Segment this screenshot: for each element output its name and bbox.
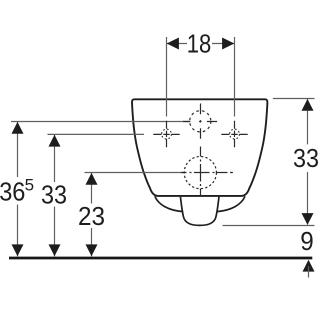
drain hole centerline vertical [200,147,202,196]
extension line flush inlet (36.5) [11,121,190,123]
water inlet hole circle [190,111,211,132]
trap U outline [180,197,219,226]
svg-text:36: 36 [0,176,25,206]
dimension 36.5 arrow up [12,122,24,134]
dimension 33 left line lower [54,207,56,257]
dimension 18 line left segment [167,43,188,45]
fixing hole right centerline horizontal [221,133,247,135]
dimension 18 arrow left [167,38,179,50]
dimension 36.5 line lower [17,205,19,257]
dimension 18 arrow right [222,38,234,50]
drain hole circle [184,157,216,189]
WC body outline [132,99,267,196]
dimension 33 left arrow down [49,244,61,256]
fixing hole right centerline vertical [234,121,236,148]
svg-text:9: 9 [300,226,314,256]
fixing hole left circle [162,129,172,139]
dimension 9 arrow up below baseline [303,260,315,272]
dimension 33 right arrow down [302,213,314,225]
dimension 23 line upper [91,173,93,204]
dimension 18 extension line left [166,37,168,117]
dimension 18 extension line right [234,37,236,117]
fixing hole left centerline horizontal [153,133,179,135]
dimension 23 line lower [91,228,93,256]
dimension 23 arrow up [86,173,98,185]
dimension 36.5 arrow down [12,244,24,256]
dimension 33 right line lower [307,172,309,225]
extension line top right (33 right) [273,98,315,100]
dimension 33 right line upper [307,99,309,145]
dimension 33 left line upper [54,134,56,182]
svg-text:5: 5 [25,175,34,194]
water inlet hole centerline horizontal [183,121,217,123]
dimension 18 line right segment [212,43,235,45]
extension line drain (23) [85,172,184,174]
dimension 33 left arrow up [49,135,61,147]
extension line fixing holes (33 left) [48,133,145,135]
dimension 23 arrow down [86,244,98,256]
water inlet hole center dot [199,120,201,122]
extension line trap bottom (9) [223,225,315,227]
svg-text:23: 23 [78,201,105,231]
svg-text:33: 33 [41,180,67,210]
drain hole centerline horizontal [181,172,233,174]
water inlet hole centerline vertical [200,104,202,139]
fixing hole left centerline vertical [166,121,168,148]
svg-text:33: 33 [293,143,319,173]
dimension 33 right arrow up [302,99,314,111]
svg-text:18: 18 [187,29,212,59]
bowl silhouette right arc [217,196,245,211]
dimension 9 stem below baseline [308,266,310,278]
bowl silhouette left arc [155,196,183,211]
fixing hole right circle [230,129,240,139]
floor baseline [9,257,312,260]
dimension 36.5 line upper [17,122,19,178]
